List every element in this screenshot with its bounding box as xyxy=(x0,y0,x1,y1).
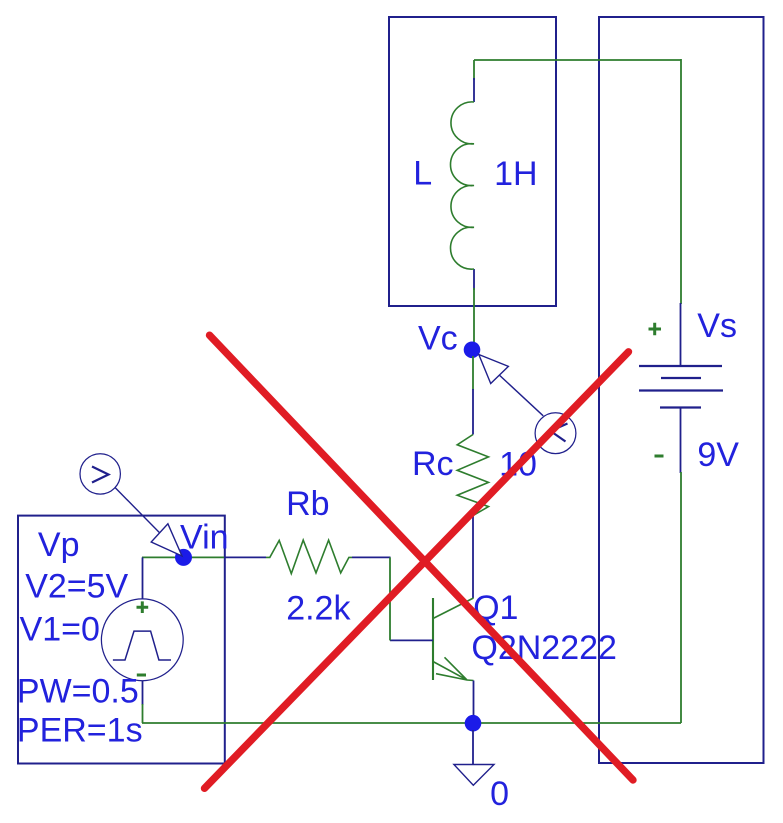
resistor Rc pins xyxy=(472,389,474,598)
red cross line B (bottom-left to top-right) xyxy=(205,352,629,789)
svg-text:9V: 9V xyxy=(697,436,739,474)
voltage marker at Vc: arrow line xyxy=(496,372,543,416)
resistor Rb left pin xyxy=(224,556,266,558)
svg-text:PER=1s: PER=1s xyxy=(17,712,143,750)
battery Vs top pin xyxy=(680,303,682,366)
pulse source Vp top pin xyxy=(142,557,144,599)
wire Vp bottom to rail xyxy=(142,704,144,723)
wire Rb to base corner xyxy=(389,557,391,640)
Vs bounding box xyxy=(599,17,764,763)
resistor Rb zigzag xyxy=(266,540,352,574)
ground symbol triangle xyxy=(454,765,494,786)
wire inductor bottom to Vc node xyxy=(473,288,475,344)
svg-text:2.2k: 2.2k xyxy=(286,590,351,628)
svg-text:Vc: Vc xyxy=(418,319,458,357)
pulse source Vp bottom pin xyxy=(142,681,144,705)
inductor L1 pins xyxy=(473,78,475,290)
voltage marker at Vin: arrow line xyxy=(115,487,181,554)
svg-text:V2=5V: V2=5V xyxy=(25,568,128,606)
voltage marker at Vin: circle with > glyph xyxy=(80,454,120,494)
voltage marker at Vc: arrowhead triangle xyxy=(479,355,509,384)
node junction dot on rail xyxy=(465,715,482,732)
node Vin dot xyxy=(175,549,192,566)
svg-text:0: 0 xyxy=(490,775,509,813)
svg-text:Vin: Vin xyxy=(180,519,229,557)
svg-text:1H: 1H xyxy=(494,155,537,193)
voltage marker at Vin: arrowhead triangle xyxy=(151,524,182,556)
battery Vs bottom pin xyxy=(680,408,682,474)
wire Vs bottom vertical to rail xyxy=(680,472,682,723)
svg-text:V1=0: V1=0 xyxy=(20,611,100,649)
pulse source Vp trapezoid waveform xyxy=(113,631,171,660)
svg-text:L: L xyxy=(413,155,432,193)
resistor Rb left wire from Vin xyxy=(142,556,225,558)
Vp bounding box xyxy=(18,516,225,764)
wire ground rail xyxy=(142,722,681,724)
svg-text:Vp: Vp xyxy=(38,526,80,564)
battery Vs plus sign xyxy=(649,323,662,336)
voltage marker at Vc: circle with level glyph xyxy=(535,413,576,454)
transistor Q1 collector diagonal xyxy=(433,598,474,619)
wire inductor top stub xyxy=(473,60,475,80)
ground stub xyxy=(472,730,474,765)
wire top right vertical xyxy=(680,59,682,304)
resistor Rc zigzag xyxy=(457,435,488,516)
svg-text:Vs: Vs xyxy=(697,307,737,345)
battery Vs plates xyxy=(639,366,723,408)
pulse source Vp minus sign xyxy=(137,674,146,677)
wire top horizontal L to Vs xyxy=(474,59,681,61)
transistor Q1 emitter pin xyxy=(473,681,475,717)
battery Vs minus sign xyxy=(655,455,664,458)
wire Vc to Rc xyxy=(472,356,474,390)
inductor bounding box xyxy=(389,17,556,306)
pulse source Vp circle xyxy=(101,599,183,681)
pulse source Vp plus sign xyxy=(137,601,149,613)
red cross line A (top-left to bottom-right) xyxy=(210,335,634,780)
svg-text:Rc: Rc xyxy=(412,445,454,483)
resistor Rb right pin xyxy=(352,556,391,558)
svg-text:Rb: Rb xyxy=(286,485,329,523)
inductor L coil xyxy=(450,102,474,269)
transistor Q1 emitter diagonal with arrow xyxy=(433,657,474,680)
node Vc dot xyxy=(464,342,481,359)
transistor Q1 base bar xyxy=(432,598,434,680)
transistor Q1 base pin xyxy=(390,639,433,641)
svg-text:PW=0.5: PW=0.5 xyxy=(17,673,139,711)
